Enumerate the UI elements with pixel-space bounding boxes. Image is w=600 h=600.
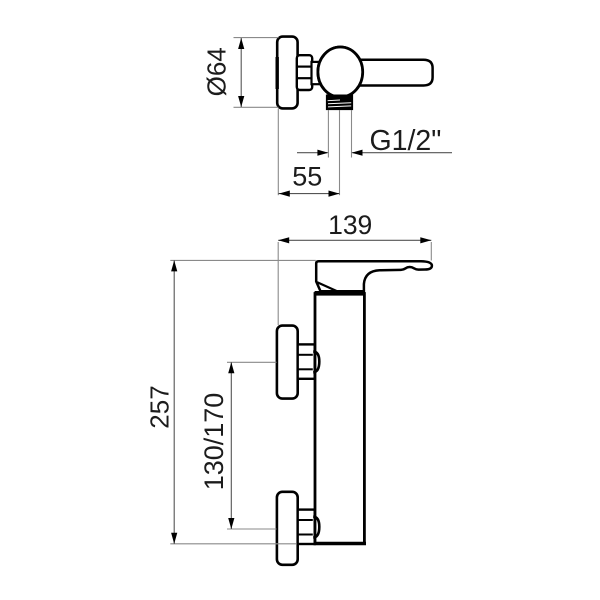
upper union bulge (side view)	[313, 351, 319, 372]
dimension 257 extension lines	[170, 260, 315, 543]
svg-text:130/170: 130/170	[199, 393, 229, 491]
dimension 139 label	[328, 210, 372, 240]
hidden connector edge on flange left (top view)	[276, 57, 279, 89]
dimension 130/170 line and arrows	[228, 362, 234, 529]
threaded outlet G1/2 (top view)	[327, 95, 353, 109]
dimension Ø64 label	[202, 47, 232, 96]
dimension Ø64 line and arrows	[238, 38, 244, 107]
connecting cylinder (top view)	[312, 62, 322, 84]
dimension G1/2 extension lines	[328, 110, 351, 158]
dimension 130/170 extension lines	[227, 362, 277, 529]
dimension 257 line and arrows	[171, 260, 177, 543]
dimension 257 label	[144, 385, 174, 428]
upper hex nut (side view)	[298, 344, 315, 378]
dimension 139 extension lines	[278, 242, 431, 325]
svg-text:139: 139	[328, 210, 372, 240]
dimension 55 label	[292, 162, 322, 192]
dimension G1/2 arrows and leader	[297, 150, 452, 156]
faucet body (side view)	[314, 294, 367, 544]
dimension 55 extension lines	[278, 109, 339, 196]
hex nut (top view)	[297, 55, 312, 90]
wall flange disc (top view)	[277, 37, 297, 109]
lever handle (side view)	[316, 261, 432, 292]
lever handle (top view)	[355, 60, 433, 86]
lower wall flange (side view)	[277, 492, 298, 565]
dimension Ø64 extension lines	[234, 38, 279, 108]
upper wall flange (side view)	[277, 326, 298, 399]
lower union bulge (side view)	[313, 517, 319, 538]
svg-text:G1/2": G1/2"	[370, 125, 442, 157]
dimension 130/170 label	[199, 393, 229, 491]
svg-text:Ø64: Ø64	[202, 47, 232, 96]
re-draw ball over lever join	[318, 47, 363, 97]
dimension 139 line and arrows	[278, 237, 431, 243]
svg-text:55: 55	[292, 162, 322, 192]
cartridge cover band (side view)	[315, 291, 365, 296]
svg-text:257: 257	[144, 385, 174, 428]
valve ball body (top view)	[318, 47, 363, 97]
lower hex nut (side view)	[298, 510, 315, 544]
dimension 55 line and arrows	[278, 191, 339, 197]
dimension G1/2 label	[370, 125, 442, 157]
